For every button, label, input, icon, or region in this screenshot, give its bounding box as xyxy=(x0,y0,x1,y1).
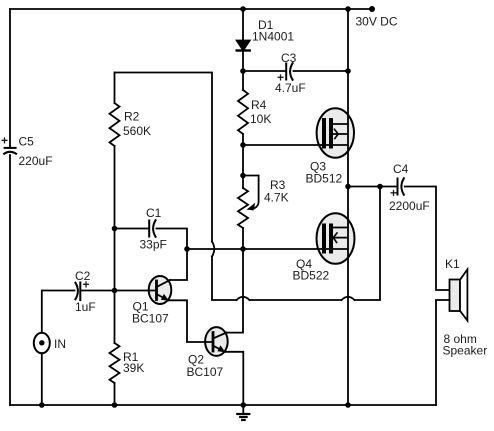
svg-text:+: + xyxy=(1,134,8,148)
diode D1 xyxy=(237,9,250,71)
node Q4 gate / R3 / C1 row junction xyxy=(240,246,246,252)
resistor R2 xyxy=(110,103,120,146)
node IN / ground rail xyxy=(39,402,45,408)
wire Q1 emitter to Q2 base xyxy=(168,300,213,342)
svg-text:C4: C4 xyxy=(393,162,409,176)
svg-text:R4: R4 xyxy=(251,98,267,112)
resistor R4 xyxy=(238,90,248,134)
transistor Q1 internals xyxy=(157,280,171,301)
node C1 row / R-column junction xyxy=(112,226,118,232)
wire D1 node to R4 xyxy=(242,71,244,90)
node C3 / Q3 drain junction xyxy=(345,68,351,74)
transistor Q2 internals xyxy=(213,333,227,353)
svg-text:2200uF: 2200uF xyxy=(389,199,430,213)
node R4 / Q3 gate xyxy=(240,142,246,148)
wire bootstrap R2 top loop xyxy=(115,73,213,242)
transistor Q1 body circle xyxy=(149,276,172,304)
svg-text:C5: C5 xyxy=(19,135,35,149)
mosfet Q4 body circle xyxy=(317,213,355,264)
wire IN to ground rail xyxy=(41,353,43,405)
capacitor C2 plates xyxy=(75,283,80,301)
mosfet Q3 symbol internals xyxy=(324,120,348,147)
svg-text:+: + xyxy=(83,278,90,292)
wire IN to C2 row xyxy=(42,291,75,333)
capacitor C1 plates xyxy=(149,220,155,237)
wire +30V / Q3 / output node / Q4 / ground column xyxy=(347,9,349,405)
svg-text:BC107: BC107 xyxy=(187,365,224,379)
svg-text:220uF: 220uF xyxy=(19,154,53,168)
svg-text:33pF: 33pF xyxy=(140,238,167,252)
speaker K1 horn xyxy=(460,269,467,320)
svg-text:BD512: BD512 xyxy=(306,172,343,186)
wire R3 to Q4 gate node xyxy=(242,228,244,249)
speaker K1 box xyxy=(450,280,461,312)
wire Q4 gate row xyxy=(187,248,348,250)
svg-text:IN: IN xyxy=(54,337,66,351)
wire bottom ground rail xyxy=(10,404,436,406)
wire bootstrap mid segment xyxy=(250,299,342,301)
potentiometer R3 xyxy=(238,176,259,229)
wire speaker return to ground rail xyxy=(436,300,450,405)
svg-text:4.7uF: 4.7uF xyxy=(275,81,306,95)
node 30V DC terminal xyxy=(369,6,375,12)
wire C2 to Q1 base xyxy=(81,290,156,292)
wire bootstrap hop over Q2 collector column xyxy=(237,297,250,300)
wire Q1 collector up to gate node xyxy=(170,249,187,280)
node output / bootstrap junction xyxy=(377,184,383,190)
wire Q2 emitter to ground xyxy=(225,352,244,405)
wire bootstrap column lower xyxy=(212,257,237,301)
wire left rail lower (C5 to ground rail) xyxy=(9,155,11,405)
svg-text:+: + xyxy=(390,186,397,200)
svg-text:10K: 10K xyxy=(250,112,271,126)
node C3 / D1 junction xyxy=(240,68,246,74)
node R1 / ground rail xyxy=(112,402,118,408)
svg-text:BC107: BC107 xyxy=(132,312,169,326)
wire bootstrap hop over Q4 source column xyxy=(342,297,355,300)
wire C4 to speaker column xyxy=(405,187,450,291)
svg-text:R2: R2 xyxy=(124,110,140,124)
wire R1 bottom stub xyxy=(114,383,116,405)
node top rail / D1 xyxy=(240,6,246,12)
node R3 top / wiper xyxy=(240,173,246,179)
wire bootstrap to C4 junction xyxy=(355,187,381,301)
svg-text:C1: C1 xyxy=(146,206,162,220)
wire C3 row right xyxy=(294,70,349,72)
source IN circle xyxy=(34,333,50,353)
wire R2 bottom to C2 node xyxy=(114,146,116,343)
wire R4-R3 column xyxy=(242,145,244,188)
mosfet Q3 body circle xyxy=(317,108,354,157)
svg-text:39K: 39K xyxy=(123,361,144,375)
transistor Q2 body circle xyxy=(205,327,228,356)
node output junction Q3/Q4 xyxy=(345,184,351,190)
node C1 / Q1 collector / gate row xyxy=(184,246,190,252)
node C2 row / R-column junction xyxy=(112,288,118,294)
wire Q2 collector up to gate node xyxy=(227,249,244,333)
capacitor C3 plates xyxy=(286,63,292,80)
resistor R1 xyxy=(110,343,120,383)
capacitor C5 plates xyxy=(3,148,17,154)
wire output row to C4 xyxy=(348,186,396,188)
capacitor C4 plates xyxy=(398,178,404,195)
wire top +30V rail xyxy=(10,8,372,10)
source IN center dot xyxy=(39,340,44,345)
wire left rail upper (to C5) xyxy=(9,9,11,148)
svg-text:BD522: BD522 xyxy=(293,269,330,283)
node Q4 source / ground rail xyxy=(345,402,351,408)
svg-text:1N4001: 1N4001 xyxy=(252,30,294,44)
wire Q3 gate line xyxy=(243,144,348,146)
svg-text:4.7K: 4.7K xyxy=(264,191,289,205)
svg-text:C3: C3 xyxy=(281,51,297,65)
ground symbol xyxy=(237,405,249,420)
svg-text:1uF: 1uF xyxy=(75,300,96,314)
svg-text:K1: K1 xyxy=(445,257,460,271)
wire bootstrap hop over gate row xyxy=(212,242,214,257)
wire R4 to gate node xyxy=(242,134,244,145)
wire R2 top stub xyxy=(114,73,116,104)
mosfet Q4 symbol internals xyxy=(324,226,348,252)
wire C3 row left xyxy=(243,70,285,72)
svg-text:560K: 560K xyxy=(123,124,151,138)
node top rail / Q3 column xyxy=(345,6,351,12)
node Q2 emitter / ground rail xyxy=(241,402,247,408)
wire C1 row left xyxy=(115,228,149,230)
svg-text:Speaker: Speaker xyxy=(443,344,488,358)
svg-text:30V DC: 30V DC xyxy=(356,15,398,29)
wire C1 row right down to gate node xyxy=(157,229,188,250)
